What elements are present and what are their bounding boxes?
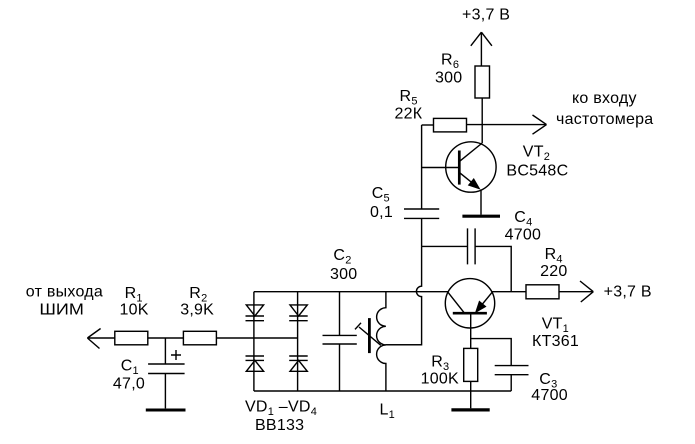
power +3,7 V arrow (right) xyxy=(580,281,593,302)
svg-text:BC548C: BC548C xyxy=(506,162,568,179)
svg-text:220: 220 xyxy=(540,263,567,280)
varicap VD1 xyxy=(246,305,263,316)
arrow from PWM output xyxy=(87,329,114,349)
wire R3 bottom to ground xyxy=(470,381,472,408)
wire C1 top lead xyxy=(164,338,166,364)
capacitor C1 polarity plus xyxy=(171,350,181,360)
svg-text:L1: L1 xyxy=(380,401,396,421)
transistor VT2 xyxy=(446,142,496,192)
svg-text:VT1: VT1 xyxy=(542,315,569,335)
svg-text:BB133: BB133 xyxy=(255,417,304,434)
power +3,7 V arrow (top, to R6) xyxy=(471,32,492,66)
svg-text:C1: C1 xyxy=(121,358,139,378)
svg-text:3,9K: 3,9K xyxy=(180,302,214,319)
wire VT2 base xyxy=(422,167,460,169)
wire VT1 base down to R3 xyxy=(470,313,472,348)
svg-text:0,1: 0,1 xyxy=(370,204,393,221)
svg-text:+3,7 В: +3,7 В xyxy=(462,7,510,24)
wire C4 right to emitter junction xyxy=(475,246,511,291)
wire C3 bottom to rail xyxy=(510,375,512,391)
diode column 2 wire xyxy=(297,292,299,391)
wire bias feed to varicaps xyxy=(217,337,298,339)
wire R1 to R2 xyxy=(148,337,184,339)
svg-text:ко входу: ко входу xyxy=(572,90,637,107)
varicap VD3 (bottom left) xyxy=(246,356,265,360)
resistor R3 xyxy=(464,348,478,381)
svg-text:C5: C5 xyxy=(372,185,390,205)
ground (VT2 emitter) xyxy=(462,215,500,218)
wire C1 bottom to ground xyxy=(164,374,166,409)
wire C5 to C4 tee xyxy=(421,218,423,246)
capacitor C1 xyxy=(148,364,185,374)
svg-text:4700: 4700 xyxy=(531,387,568,404)
resistor R4 xyxy=(526,285,559,299)
wire main collector line VT2 xyxy=(467,124,547,126)
wire R6 bottom to collector junction xyxy=(481,98,483,143)
svg-text:R6: R6 xyxy=(441,51,459,71)
svg-text:300: 300 xyxy=(435,69,462,86)
svg-text:+3,7 В: +3,7 В xyxy=(604,284,652,301)
wire C2 bottom lead xyxy=(339,344,341,391)
resistor R2 xyxy=(183,331,216,345)
svg-text:300: 300 xyxy=(330,266,357,283)
wire tee to C4 xyxy=(422,245,468,247)
resistor R6 xyxy=(475,66,490,98)
wire vertical with hop over tank line xyxy=(386,246,422,344)
arrow to frequency-meter input xyxy=(533,115,547,134)
svg-text:4700: 4700 xyxy=(505,226,542,243)
wire R5 left / C5 vertical xyxy=(421,125,423,209)
capacitor C3 xyxy=(495,366,529,375)
svg-text:VT2: VT2 xyxy=(523,144,550,164)
diode column 1 wire xyxy=(253,292,255,391)
ground (C1 bottom) xyxy=(146,408,186,411)
svg-text:100K: 100K xyxy=(421,371,459,388)
wire C2 top lead xyxy=(339,292,341,336)
wire VT1 emitter to R4 xyxy=(492,291,526,293)
varicap VD4 (bottom right) xyxy=(289,356,308,360)
svg-text:47,0: 47,0 xyxy=(113,375,145,392)
wire L1 tap xyxy=(386,344,422,346)
transistor VT1 xyxy=(445,279,494,328)
resistor R1 xyxy=(115,331,148,345)
trimmer capacitor plate xyxy=(368,318,371,353)
wire tank bottom rail xyxy=(254,390,511,392)
svg-text:22К: 22К xyxy=(395,106,423,123)
wire tank top rail xyxy=(254,291,448,293)
svg-text:КТ361: КТ361 xyxy=(532,333,579,350)
svg-text:от выхода: от выхода xyxy=(26,283,103,300)
svg-text:ШИМ: ШИМ xyxy=(39,302,84,319)
wire base tee to C3 xyxy=(471,339,512,366)
wire R4 to supply arrow xyxy=(559,291,593,293)
capacitor C2 xyxy=(323,335,357,344)
inductor L1 xyxy=(377,292,386,391)
svg-text:частотомера: частотомера xyxy=(556,111,653,128)
resistor R5 xyxy=(422,124,434,126)
varicap VD2 (top right) xyxy=(290,305,307,316)
svg-text:C2: C2 xyxy=(333,247,351,267)
ground (R3 bottom) xyxy=(451,408,489,411)
svg-text:10K: 10K xyxy=(120,302,149,319)
svg-text:VD1 –VD4: VD1 –VD4 xyxy=(245,399,317,419)
wire VT2 emitter down xyxy=(480,190,482,215)
capacitor C4 xyxy=(468,228,476,264)
capacitor C5 xyxy=(404,209,439,218)
trimmer adjust arrow xyxy=(355,323,381,346)
